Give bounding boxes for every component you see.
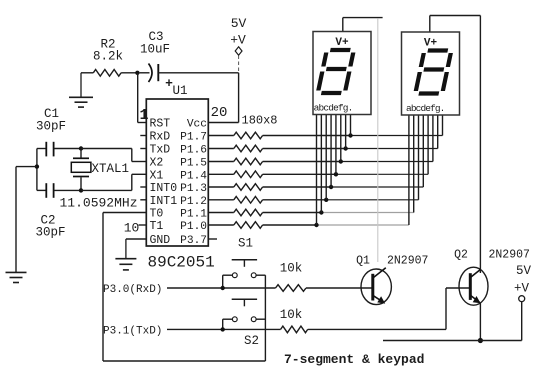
wire display2 pin b drop [413, 115, 415, 213]
wire display1 pin g drop [345, 115, 347, 149]
wire display1 pin c drop [325, 115, 327, 200]
wire P3.1 row [167, 328, 281, 330]
svg-text:Vcc: Vcc [187, 119, 207, 131]
pin stub INT1 [140, 199, 146, 201]
wire segment row P1.4 to display 1 [263, 173, 336, 175]
svg-text:U1: U1 [172, 84, 187, 98]
wire segment row P1.6 to display 1 [263, 148, 346, 150]
node display1 column junction P1.1 [319, 210, 323, 214]
pin stub TxD [140, 148, 146, 150]
ground at GND pin [125, 239, 127, 259]
wire X1 jog [81, 189, 132, 191]
node display1 column junction P1.7 [348, 133, 352, 137]
wire rail to ground [16, 166, 37, 168]
wire P1.4 stub [208, 173, 234, 175]
node display1 column junction P1.4 [334, 172, 338, 176]
resistor 10k upper [276, 285, 306, 292]
wire S2 left contact [223, 318, 233, 320]
resistor array element R2 (180 ohm) [234, 145, 263, 152]
wire +V bottom rail [383, 340, 522, 342]
pin stub INT0 [140, 186, 146, 188]
wire 5V down to Vcc pin 20 [238, 73, 240, 123]
svg-text:10k: 10k [280, 308, 303, 322]
svg-text:2N2907: 2N2907 [489, 249, 530, 262]
node Q2 emitter / +V junction [478, 338, 483, 343]
wire RST vertical (pin 1) [137, 73, 139, 123]
pin stub GND [126, 238, 146, 240]
svg-text:2N2907: 2N2907 [387, 255, 428, 268]
wire segment row P1.3 display1 to display2 [331, 186, 423, 188]
wire display2 pin c drop [418, 115, 420, 200]
wire display2 pin . drop [442, 115, 444, 136]
wire 10k lower to Q2 base riser [308, 328, 446, 330]
node display1 column junction P1.5 [339, 159, 343, 163]
wire X2 net left [37, 148, 46, 150]
wire X2 jog [81, 148, 132, 150]
svg-text:P3.7: P3.7 [180, 235, 207, 247]
wire segment row P1.7 display1 to display2 [350, 135, 442, 137]
wire display2 pin f drop [432, 115, 434, 162]
wire P1.0 stub [208, 224, 234, 226]
node XTAL bottom [79, 188, 83, 192]
svg-text:5V: 5V [516, 264, 532, 278]
wire display1 V+ lead [342, 18, 344, 32]
wire C3 to 5V corner [158, 72, 238, 74]
wire faint vertical to Q1 collector [377, 18, 379, 262]
svg-text:10: 10 [124, 221, 140, 236]
svg-text:89C2051: 89C2051 [148, 254, 215, 272]
wire C3 left lead [140, 72, 150, 74]
resistor array element R3 (180 ohm) [234, 158, 263, 165]
wire 10k upper to Q1 base [306, 287, 373, 289]
op-amp U1 89C2051 body [146, 99, 208, 246]
wire display2 pin d drop [422, 115, 424, 187]
wire C1 to XTAL top node [54, 148, 81, 150]
7-segment display DS2 [402, 32, 460, 115]
wire crystal left rail [36, 149, 38, 191]
svg-text:V+: V+ [424, 38, 438, 50]
node display1 column junction P1.0 [314, 223, 318, 227]
svg-text:5V: 5V [231, 16, 247, 31]
resistor array element R4 (180 ohm) [234, 171, 263, 178]
svg-text:P1.2: P1.2 [180, 196, 207, 208]
svg-text:8.2k: 8.2k [93, 50, 123, 64]
node S1 tap on P3.0 [221, 286, 225, 290]
wire P1.1 stub [208, 212, 234, 214]
svg-text:11.0592MHz: 11.0592MHz [60, 196, 138, 211]
capacitor C2 [45, 183, 47, 198]
wire display2 V+ lead [429, 16, 431, 33]
svg-text:+V: +V [230, 33, 246, 48]
wire display2 pin g drop [437, 115, 439, 149]
svg-text:P1.3: P1.3 [180, 183, 207, 195]
resistor array element R7 (180 ohm) [234, 209, 263, 216]
node crystal rail / ground branch [35, 164, 39, 168]
svg-text:10k: 10k [280, 262, 303, 276]
svg-text:RxD: RxD [150, 131, 171, 144]
wire S1 right contact [256, 274, 265, 276]
svg-text:7-segment & keypad: 7-segment & keypad [284, 352, 424, 367]
resistor 10k lower [281, 326, 308, 333]
wire segment row P1.2 display1 to display2 [326, 199, 418, 201]
wire display1 pin a drop [316, 115, 318, 225]
wire segment row P1.2 to display 1 [263, 199, 327, 201]
wire segment row P1.1 to display 1 [263, 212, 322, 214]
svg-text:INT1: INT1 [150, 195, 178, 208]
svg-text:V+: V+ [335, 37, 349, 49]
wire +V terminal stub (dashed) [238, 56, 240, 73]
svg-text:20: 20 [211, 105, 228, 121]
svg-text:P1.7: P1.7 [180, 132, 207, 144]
node display1 column junction P1.6 [343, 146, 347, 150]
wire segment row P1.0 display1 to display2 [317, 224, 409, 226]
wire P1.2 stub [208, 199, 234, 201]
svg-text:P3.1(TxD): P3.1(TxD) [103, 326, 162, 338]
svg-text:T1: T1 [150, 220, 164, 233]
svg-text:S1: S1 [238, 237, 253, 251]
resistor array element R8 (180 ohm) [234, 222, 263, 229]
switch S1 [232, 259, 257, 261]
node display1 column junction P1.3 [329, 185, 333, 189]
wire display1 pin f drop [340, 115, 342, 162]
wire Q2 emitter down [479, 303, 481, 341]
wire P1.7 stub [208, 135, 234, 137]
capacitor C1 [45, 142, 47, 157]
resistor array element R1 (180 ohm) [234, 132, 263, 139]
svg-text:INT0: INT0 [150, 182, 178, 195]
svg-text:X2: X2 [150, 157, 164, 170]
wire segment row P1.1 display1 to display2 [321, 212, 413, 214]
wire C2 to XTAL bottom node [54, 189, 81, 191]
wire S1 left contact [223, 274, 233, 276]
ground under R2 left lead [80, 73, 82, 98]
wire segment row P1.6 display1 to display2 [346, 148, 438, 150]
wire segment row P1.7 to display 1 [263, 135, 351, 137]
svg-text:TxD: TxD [150, 144, 171, 157]
wire display1 pin d drop [330, 115, 332, 187]
resistor R2 [93, 70, 121, 77]
svg-text:P1.6: P1.6 [180, 145, 207, 157]
wire keypad right rail [264, 275, 266, 361]
pin stub P3.7 [208, 238, 217, 240]
svg-text:XTAL1: XTAL1 [92, 162, 130, 176]
capacitor C3 curved plate [149, 64, 153, 83]
7-segment display DS1 [313, 32, 371, 115]
svg-text:RST: RST [150, 118, 171, 131]
wire display2 V+ to Q2 collector [479, 16, 481, 274]
node R2/C3/RST junction [135, 71, 139, 75]
resistor array element R5 (180 ohm) [234, 184, 263, 191]
crystal XTAL1 [80, 149, 82, 158]
wire display2 pin a drop [408, 115, 410, 225]
svg-text:P1.4: P1.4 [180, 171, 207, 183]
svg-text:P1.1: P1.1 [180, 209, 207, 221]
capacitor C3 straight plate [157, 64, 159, 81]
wire segment row P1.4 display1 to display2 [336, 173, 428, 175]
switch S2 [232, 298, 257, 300]
wire S2 right contact [256, 318, 265, 320]
wire segment row P1.3 to display 1 [263, 186, 331, 188]
node XTAL top [79, 146, 83, 150]
transistor Q1 [361, 269, 391, 305]
wire P1.5 stub [208, 161, 234, 163]
wire segment row P1.0 to display 1 [263, 224, 317, 226]
svg-text:Q1: Q1 [356, 255, 370, 268]
svg-text:.: . [440, 103, 446, 114]
wire R2 right lead [121, 72, 137, 74]
svg-text:P3.0(RxD): P3.0(RxD) [103, 284, 162, 296]
wire +V terminal down [521, 302, 523, 341]
svg-text:30pF: 30pF [36, 120, 66, 134]
svg-text:10uF: 10uF [140, 43, 170, 57]
ground at crystal rail [6, 271, 27, 273]
wire R2 left lead [81, 72, 93, 74]
svg-text:1: 1 [140, 107, 149, 124]
node S2 tap on P3.1 [221, 327, 225, 331]
wire T0 to keypad rail [103, 212, 146, 214]
terminal +V diamond [235, 47, 242, 55]
terminal +V circle (right) [519, 296, 525, 302]
wire segment row P1.5 display1 to display2 [341, 161, 433, 163]
wire X1 net left [37, 189, 46, 191]
wire display1 pin e drop [335, 115, 337, 174]
svg-text:180x8: 180x8 [242, 114, 278, 128]
svg-text:T0: T0 [150, 208, 164, 221]
svg-text:P1.0: P1.0 [180, 221, 207, 233]
svg-text:X1: X1 [150, 170, 164, 183]
svg-text:+V: +V [514, 282, 530, 296]
node display1 column junction P1.2 [324, 198, 328, 202]
svg-text:.: . [348, 103, 354, 114]
wire display1 pin . drop [349, 115, 351, 136]
svg-text:30pF: 30pF [35, 226, 65, 240]
wire P1.3 stub [208, 186, 234, 188]
svg-text:Q2: Q2 [454, 249, 468, 262]
wire P1.6 stub [208, 148, 234, 150]
transistor Q2 [459, 267, 488, 305]
svg-text:GND: GND [150, 234, 171, 247]
svg-text:P1.5: P1.5 [180, 158, 207, 170]
svg-text:S2: S2 [244, 334, 259, 348]
pin stub RxD [140, 135, 146, 137]
resistor array element R6 (180 ohm) [234, 197, 263, 204]
wire display1 pin b drop [320, 115, 322, 213]
wire display2 pin e drop [427, 115, 429, 174]
wire segment row P1.5 to display 1 [263, 161, 341, 163]
wire P3.0 row [167, 287, 276, 289]
